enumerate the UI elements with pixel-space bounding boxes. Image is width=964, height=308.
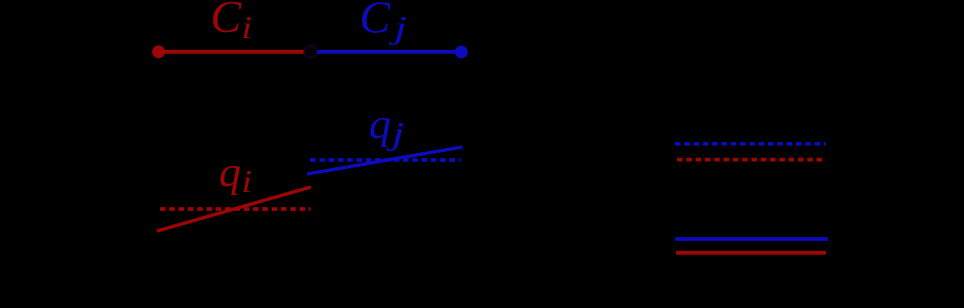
svg-text:q: q: [369, 102, 391, 148]
svg-text:C: C: [211, 0, 243, 42]
svg-text:i: i: [242, 163, 253, 199]
svg-text:C: C: [360, 0, 392, 43]
svg-text:i: i: [242, 9, 253, 45]
svg-text:q: q: [219, 150, 241, 196]
